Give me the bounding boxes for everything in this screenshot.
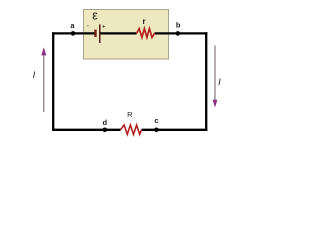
svg-text:R: R [127, 110, 133, 119]
svg-text:I: I [218, 77, 221, 88]
wire right vertical [205, 32, 207, 130]
emf source box (battery + internal resistance) [84, 10, 169, 60]
internal resistor r zigzag [137, 29, 155, 38]
wire bottom-left: node d segment [52, 129, 120, 131]
svg-text:I: I [33, 70, 36, 81]
wire top-right: node b segment [155, 32, 208, 34]
wire top-left: node a segment [52, 32, 95, 34]
current arrow left head [41, 47, 46, 55]
svg-text:ε: ε [92, 9, 98, 23]
svg-text:b: b [176, 21, 181, 30]
battery cell: positive tall plate [99, 24, 101, 43]
node c dot [154, 128, 159, 133]
wire left vertical [52, 32, 54, 130]
node b dot [176, 31, 181, 36]
svg-text:d: d [103, 118, 108, 127]
current arrow right (downward) shaft [214, 46, 216, 102]
wire bottom-right: node c segment [142, 129, 208, 131]
external resistor R zigzag [121, 125, 142, 134]
svg-text:c: c [154, 116, 158, 125]
node a dot [71, 31, 76, 36]
wire between battery and resistor r [100, 32, 137, 34]
battery cell: negative short plate [94, 30, 96, 37]
node d dot [103, 128, 108, 133]
current arrow right head [213, 100, 218, 108]
svg-text:-: - [87, 22, 89, 29]
svg-text:+: + [102, 24, 106, 31]
svg-text:r: r [142, 17, 145, 26]
current arrow left (upward) shaft [43, 54, 45, 112]
